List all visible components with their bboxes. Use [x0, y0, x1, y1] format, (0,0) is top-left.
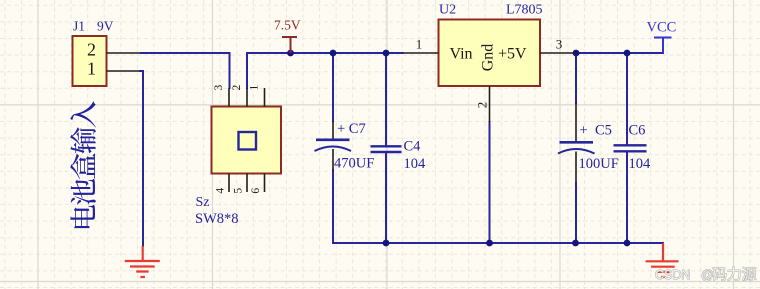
svg-text:Gnd: Gnd: [480, 44, 497, 72]
pin 6 (Sz) bottom: [250, 174, 265, 194]
pin 1 (U2): [403, 37, 439, 54]
junction C4 tap: [383, 50, 390, 57]
pin 1 (J1): [107, 70, 141, 72]
svg-text:1: 1: [249, 84, 261, 90]
pin 2 (J1): [107, 52, 142, 54]
svg-text:Vin: Vin: [450, 46, 473, 63]
junction C7 tap: [330, 50, 337, 57]
capacitor C4: [371, 146, 402, 152]
designator + C7: [337, 121, 366, 137]
svg-text:3: 3: [556, 37, 563, 52]
svg-text:5: 5: [233, 188, 245, 194]
value L7805: [506, 3, 543, 18]
junction C5 bottom: [572, 240, 579, 247]
svg-text:J1: J1: [73, 19, 85, 34]
svg-text:C4: C4: [404, 139, 422, 155]
wire C6 top drop: [626, 53, 628, 145]
junction U2 gnd: [486, 240, 493, 247]
value 100UF: [579, 156, 619, 172]
switch Sz SW8*8: [212, 107, 282, 174]
wire switch pin 2 to U2 pin 1 (7.5V rail): [247, 53, 403, 88]
svg-text:U2: U2: [439, 3, 456, 18]
designator C6: [629, 123, 646, 139]
label Gnd: [480, 44, 497, 72]
wire bottom ground rail: [333, 242, 663, 244]
wire J1.1 to ground: [140, 71, 143, 246]
junction C6 tap: [624, 50, 631, 57]
regulator U2 L7805: [439, 20, 541, 87]
pin 2 label (J1): [87, 40, 96, 60]
svg-text:4: 4: [215, 188, 227, 194]
svg-text:9V: 9V: [97, 19, 114, 34]
wire C4 bottom: [385, 152, 387, 243]
pin 3 (U2): [540, 37, 575, 54]
svg-text:C6: C6: [629, 123, 646, 139]
wire U2 gnd drop: [489, 122, 491, 243]
svg-text:C5: C5: [595, 123, 612, 139]
pin 4 (Sz) bottom: [215, 174, 230, 194]
label +5V: [498, 46, 527, 63]
pin 3 (Sz) top: [213, 84, 229, 106]
svg-text:+5V: +5V: [498, 46, 527, 63]
designator C4: [404, 139, 422, 155]
designator U2: [439, 3, 456, 18]
svg-text:6: 6: [250, 188, 262, 194]
wire U2.3 output rail: [575, 52, 664, 54]
ground (output rail): [646, 243, 679, 277]
designator + C5: [580, 123, 612, 139]
designator Sz: [196, 195, 210, 210]
wire J1.2 to switch pin 3: [141, 53, 230, 88]
svg-text:104: 104: [404, 156, 427, 172]
svg-text:SW8*8: SW8*8: [195, 211, 239, 227]
junction C6 bottom: [624, 240, 631, 247]
wire C6 bottom: [626, 152, 628, 244]
svg-text:2: 2: [475, 102, 490, 109]
watermark CSDN @码力源: [655, 267, 756, 282]
junction C5 tap: [573, 50, 580, 57]
svg-text:2: 2: [231, 84, 243, 90]
svg-text:470UF: 470UF: [334, 156, 374, 172]
value 104 (C6): [629, 156, 652, 172]
capacitor C6: [614, 145, 647, 151]
pin 2 (Sz) top: [231, 84, 247, 106]
value SW8*8: [195, 211, 239, 227]
wire C7 top drop: [332, 53, 334, 121]
designator J1: [73, 19, 85, 34]
svg-text:1: 1: [416, 37, 423, 52]
power port VCC: [647, 20, 677, 54]
svg-text:100UF: 100UF: [579, 156, 619, 172]
net label 电池盒输入 (battery box input): [70, 101, 96, 228]
value 470UF: [334, 156, 374, 172]
value 104 (C4): [404, 156, 427, 172]
pin 5 (Sz) bottom: [233, 174, 248, 194]
wire C5 bottom: [575, 183, 577, 243]
power port 7.5V: [274, 18, 301, 54]
svg-text:@: @: [701, 268, 714, 282]
capacitor C7 (polarized): [315, 121, 352, 170]
svg-text:2: 2: [87, 40, 96, 60]
wire C4 top drop: [385, 53, 387, 146]
connector J1: [73, 36, 107, 86]
svg-text:VCC: VCC: [647, 20, 677, 36]
junction C4 bottom: [383, 240, 390, 247]
svg-text:+ C7: + C7: [337, 121, 366, 137]
svg-text:3: 3: [213, 84, 225, 90]
ground (J1 pin 1): [125, 246, 160, 277]
label Vin: [450, 46, 473, 63]
svg-text:Sz: Sz: [196, 195, 210, 210]
pin 1 (Sz) top: [249, 84, 265, 106]
value 9V: [97, 19, 114, 34]
pin 2 (U2): [475, 86, 490, 122]
svg-text:L7805: L7805: [506, 3, 543, 18]
svg-text:CSDN: CSDN: [655, 268, 690, 282]
junction 7.5V tap: [287, 50, 294, 57]
capacitor C5 (polarized): [558, 103, 595, 183]
wire C7 bottom: [332, 170, 334, 243]
svg-text:7.5V: 7.5V: [274, 18, 301, 33]
svg-text:1: 1: [87, 59, 96, 79]
pin 1 label (J1): [87, 59, 96, 79]
wire C5 top drop: [575, 53, 577, 103]
svg-text:+: +: [580, 123, 588, 139]
svg-text:104: 104: [629, 156, 652, 172]
